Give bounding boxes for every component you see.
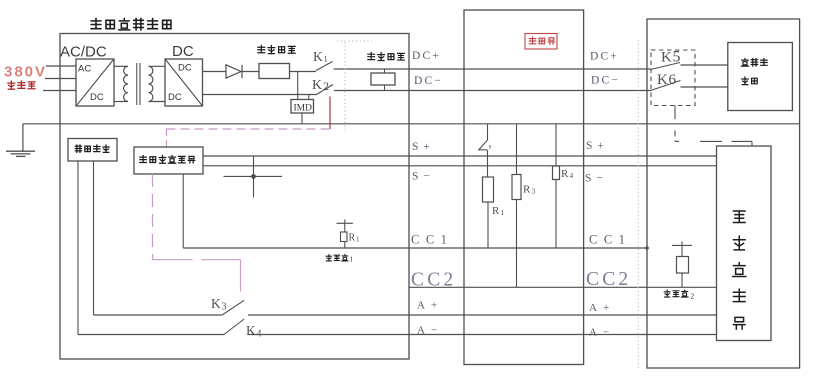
svg-text:A+: A+ [589,302,615,314]
svg-text:DC: DC [168,92,182,103]
svg-text:AC: AC [78,64,91,75]
IMD to PE wire [301,113,303,124]
svg-text:1: 1 [350,257,353,264]
svg-text:3: 3 [222,302,227,313]
node junction DC+ / IMD tap [297,72,299,100]
svg-text:380V: 380V [4,64,47,81]
svg-text:R: R [561,168,569,180]
ground symbol [22,124,24,151]
controller CC1 pin wire [182,174,184,248]
switch K6 [651,81,681,91]
svg-text:A−: A− [589,327,615,339]
svg-text:DC: DC [172,43,194,60]
整车控制器 vertical label [733,211,745,223]
交流电 label [8,81,15,89]
resistor R1 (detection) [341,232,348,242]
svg-text:DC: DC [90,92,104,103]
充电机控制器 charger controller box [134,147,203,174]
电流测量 label [258,46,265,53]
charger outer box [60,34,409,360]
dark red control wire from K2 [329,97,331,130]
CC1 bus wire [183,247,647,249]
CC2 bus wire [409,286,717,288]
switch S wire from PE [487,124,489,140]
svg-text:s: s [489,142,492,151]
pink dashed control wire to K3/K4 [152,174,154,260]
IMD box [291,100,314,114]
DC- wire left segment [203,94,317,96]
svg-text:1: 1 [501,208,505,217]
svg-text:DC−: DC− [414,75,443,87]
辅助电源 aux power box [68,139,117,162]
aux power output wires [77,161,79,335]
svg-text:DC−: DC− [591,75,620,87]
connector dotted boundary (charger side) [344,42,346,130]
A- bus wire (right of K4) [248,334,717,336]
switch K5 [651,63,681,70]
svg-text:R: R [523,184,531,196]
svg-text:6: 6 [669,72,677,88]
DC/DC converter U2 [165,59,203,106]
svg-text:K: K [661,50,672,66]
resistor R1 (lock) [483,177,494,202]
switch K2 [317,85,334,95]
svg-text:R: R [349,233,356,244]
vehicle outer box [647,19,800,368]
svg-text:4: 4 [570,171,574,180]
title 充电站充电机 [91,19,101,29]
wires transformer to DC/DC [149,65,166,67]
transformer T1 [124,66,128,101]
svg-text:CC2: CC2 [586,269,631,290]
svg-text:2: 2 [323,79,329,93]
A- bus wire (left of K4) [78,334,224,336]
检测点1 probe tap [337,222,353,224]
switch K1 [316,62,333,71]
svg-text:A−: A− [417,325,443,337]
DC+ wire right segment [334,68,652,70]
svg-text:1: 1 [356,236,360,244]
svg-text:R: R [492,205,500,217]
A+ bus wire (left of K3) [94,314,222,316]
IMD tap from DC- [308,95,310,100]
svg-text:DC+: DC+ [590,51,619,63]
svg-text:K: K [313,49,323,64]
switch K4 [224,319,244,335]
检测点2 probe tap [672,244,692,246]
S- bus wire [203,165,717,167]
svg-text:S−: S− [585,173,608,185]
K5/K6 dashed contactor box [651,50,695,106]
svg-text:CC2: CC2 [411,270,456,291]
AC/DC converter U1 [76,59,114,106]
svg-text:K: K [312,78,322,93]
wire R4 to CC1 [555,180,557,249]
wire K6 to battery [681,86,728,88]
connector dotted boundary (vehicle side) [637,40,639,368]
A+ bus wire (right of K3) [248,314,717,316]
wire R4 from PE [555,124,557,166]
电子锁 red tag [525,34,557,50]
contactor control dashed wire [674,106,676,120]
current measurement shunt [259,64,290,79]
动力电池组 label [741,59,748,67]
switch K3 [221,300,244,315]
svg-text:S+: S+ [412,141,435,153]
svg-text:A+: A+ [417,300,443,312]
pink dashed control wire to charger controller (top) [167,128,331,130]
svg-text:CC1: CC1 [589,233,631,247]
wire R1 to CC1 [487,202,489,248]
svg-text:1: 1 [324,54,328,64]
svg-text:3: 3 [532,187,536,196]
检测点2 label [664,290,670,297]
DC- wire right segment [334,90,652,92]
svg-text:S+: S+ [586,140,609,152]
svg-text:DC: DC [178,63,192,74]
shield crosshair node [253,156,255,198]
wire R3 from PE [516,124,518,175]
wire R3 to CC2 [516,200,518,288]
diode D1 [226,65,241,78]
svg-text:IMD: IMD [294,104,313,114]
svg-text:DC+: DC+ [412,50,441,62]
battery pack box [728,43,793,111]
svg-text:CC1: CC1 [411,233,453,247]
svg-text:2: 2 [691,293,695,301]
电压测量 label [368,53,375,60]
electronic lock box [464,10,584,365]
resistor (detection 2) [677,257,689,274]
switch S [479,140,488,150]
wire S to R1 [487,150,489,177]
svg-text:S−: S− [412,171,435,183]
svg-text:K: K [211,296,221,311]
wire K5 to battery [681,64,728,66]
vehicle controller box [717,146,772,341]
wires U1 to transformer [114,65,128,67]
PE earth wire [23,123,800,125]
检测点1 label [326,255,331,261]
voltage measurement box [371,73,395,85]
svg-text:AC/DC: AC/DC [60,44,107,61]
AC input wires [46,65,76,67]
svg-text:K: K [246,323,256,338]
S+ bus wire [203,155,717,157]
DC+ wire left segment [203,71,227,73]
resistor R4 [553,166,560,180]
resistor R3 [512,175,521,200]
